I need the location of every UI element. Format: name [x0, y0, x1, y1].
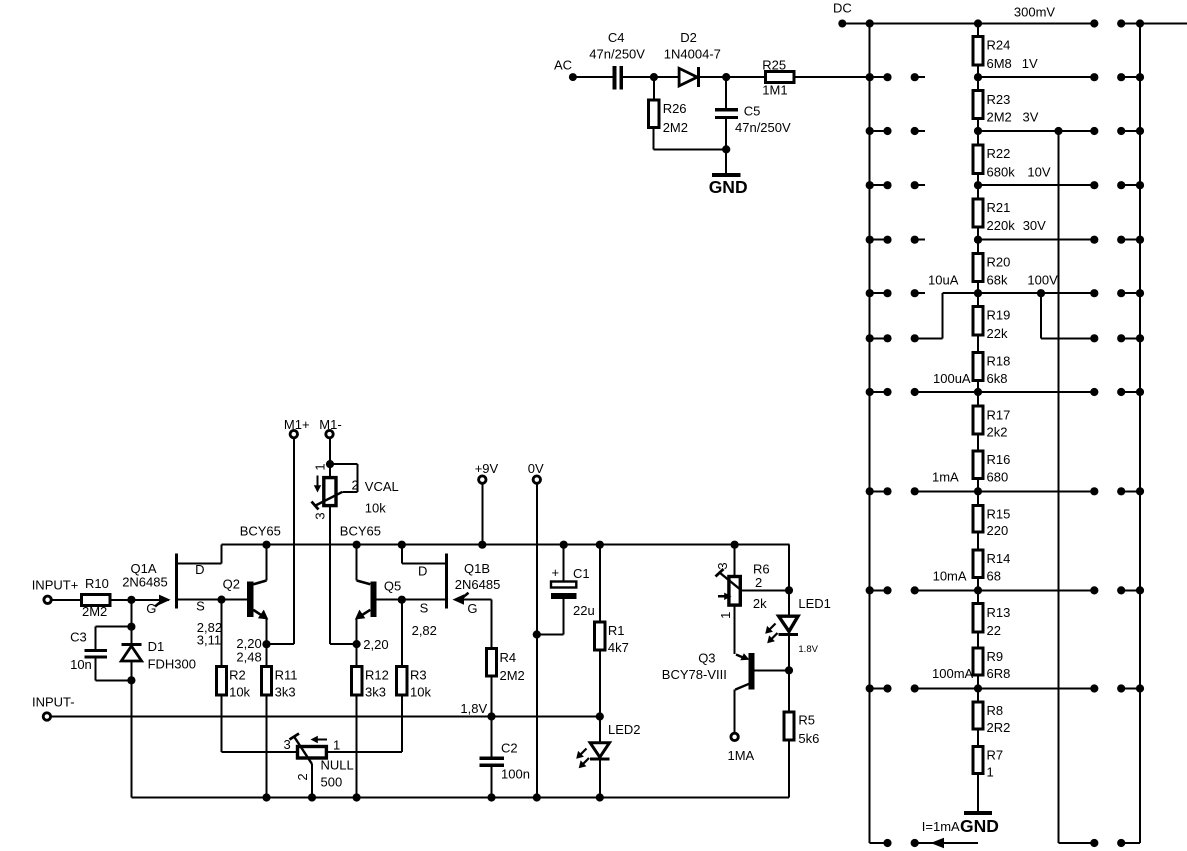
svg-text:100V: 100V	[1027, 272, 1058, 287]
wire 30V row	[866, 236, 1144, 244]
svg-text:68: 68	[987, 569, 1001, 584]
wire ladder spine	[977, 24, 979, 814]
resistor R11 3k3	[261, 644, 297, 797]
wire bottom row I=1mA	[870, 819, 1140, 848]
svg-text:D: D	[195, 562, 204, 577]
svg-text:NULL: NULL	[321, 758, 354, 773]
svg-text:R16: R16	[987, 452, 1011, 467]
svg-text:220k: 220k	[987, 218, 1016, 233]
wire 300mV top row	[842, 5, 1094, 24]
node Q2 emitter / R11 junction	[236, 636, 270, 665]
svg-text:1: 1	[312, 463, 327, 470]
svg-text:BCY65: BCY65	[340, 523, 381, 538]
resistor R12 3k3	[351, 644, 388, 797]
svg-text:GND: GND	[709, 177, 748, 197]
node M1- terminal	[319, 417, 341, 438]
svg-text:LED1: LED1	[798, 596, 831, 611]
svg-text:Q2: Q2	[223, 577, 240, 592]
resistor R13 22	[973, 604, 1011, 638]
svg-text:R9: R9	[987, 649, 1004, 664]
svg-text:3,11: 3,11	[197, 632, 221, 647]
svg-text:1M1: 1M1	[762, 83, 787, 98]
svg-text:AC: AC	[554, 57, 572, 72]
svg-text:3: 3	[312, 512, 327, 519]
potentiometer VCAL 10k	[312, 463, 399, 519]
resistor R2 10k	[216, 600, 250, 752]
resistor R1 4k7	[595, 541, 629, 717]
svg-text:INPUT-: INPUT-	[32, 695, 75, 710]
node Q1B drain rail junction	[398, 541, 406, 549]
wire +9V to rail	[478, 484, 486, 549]
svg-text:D1: D1	[148, 639, 165, 654]
svg-text:2k2: 2k2	[987, 425, 1008, 440]
wire middle rail (3V)	[1058, 131, 1060, 843]
potentiometer R6 2k	[715, 541, 770, 619]
svg-text:Q3: Q3	[698, 650, 715, 665]
svg-text:2M2: 2M2	[663, 120, 688, 135]
svg-text:4k7: 4k7	[608, 640, 629, 655]
resistor R5 5k6	[784, 670, 820, 797]
svg-text:R2: R2	[229, 668, 246, 683]
svg-text:BCY65: BCY65	[240, 523, 281, 538]
resistor R22 680k	[973, 145, 1051, 180]
transistor Q5 BCY65	[340, 523, 446, 644]
resistor R26 2M2	[649, 77, 688, 149]
svg-text:47n/250V: 47n/250V	[735, 120, 791, 135]
svg-text:R17: R17	[987, 407, 1011, 422]
svg-text:S: S	[196, 599, 205, 614]
wire bottom rail	[131, 797, 789, 799]
resistor R8 2R2	[973, 702, 1011, 735]
resistor R3 10k	[397, 600, 432, 752]
wire LED1 branch from rail	[788, 545, 790, 591]
capacitor C3 10n	[70, 600, 135, 681]
svg-text:1: 1	[718, 612, 733, 619]
svg-text:3V: 3V	[1023, 110, 1039, 125]
svg-text:M1-: M1-	[319, 417, 341, 432]
resistor R10 2M2	[82, 576, 111, 619]
svg-text:10k: 10k	[365, 500, 386, 515]
svg-text:R6: R6	[753, 561, 770, 576]
svg-text:1mA: 1mA	[932, 469, 959, 484]
svg-text:VCAL: VCAL	[365, 479, 399, 494]
svg-text:Q5: Q5	[384, 579, 401, 594]
svg-text:2M2: 2M2	[500, 668, 525, 683]
node INPUT+ terminal	[32, 577, 79, 603]
node VCAL pin1 junction	[326, 460, 334, 468]
wire D1 bottom to bottom rail	[130, 680, 132, 797]
svg-text:680k: 680k	[987, 164, 1016, 179]
svg-text:+: +	[552, 565, 560, 580]
svg-text:1,8V: 1,8V	[460, 701, 487, 716]
resistor R14 68	[933, 550, 1011, 584]
wire 1V row	[866, 73, 1144, 81]
node +9V terminal	[475, 461, 499, 483]
node Q3 collector / R5 junction	[785, 666, 793, 674]
svg-text:22u: 22u	[573, 603, 595, 618]
svg-text:2N6485: 2N6485	[122, 574, 168, 589]
resistor R20 68k	[928, 253, 1058, 287]
svg-text:C2: C2	[501, 740, 518, 755]
wire R10 to Q1A gate	[110, 599, 169, 601]
resistor R18 6k8	[933, 352, 1010, 386]
wire 100mA row	[866, 684, 1144, 692]
wire 1mA row	[866, 487, 1144, 495]
node DC terminal	[833, 0, 852, 27]
transistor Q2 BCY65	[223, 523, 281, 644]
node D2/C5/R25 junction	[722, 73, 730, 81]
potentiometer NULL 500	[222, 734, 402, 798]
svg-text:R15: R15	[987, 507, 1011, 522]
wire 3V row	[866, 127, 1144, 135]
svg-text:R14: R14	[987, 551, 1011, 566]
wire R6 bottom to Q3	[734, 605, 736, 654]
svg-text:R21: R21	[987, 200, 1011, 215]
node AC terminal	[554, 57, 577, 81]
svg-text:22k: 22k	[987, 326, 1008, 341]
svg-text:Q1B: Q1B	[464, 561, 490, 576]
ground GND (top section)	[709, 149, 748, 197]
svg-text:LED2: LED2	[608, 722, 641, 737]
node Q5 emitter / R12 junction	[353, 637, 389, 652]
wire right rail	[1139, 24, 1141, 844]
svg-text:R13: R13	[987, 605, 1011, 620]
svg-text:220: 220	[987, 523, 1009, 538]
svg-text:2,48: 2,48	[236, 650, 261, 665]
svg-text:R8: R8	[987, 703, 1004, 718]
resistor R19 22k	[973, 306, 1011, 341]
wire +9V top rail	[222, 544, 790, 546]
capacitor C2 100n	[480, 717, 530, 798]
wire 10V row	[866, 181, 1144, 189]
svg-text:BCY78-VIII: BCY78-VIII	[662, 667, 727, 682]
svg-text:2M2: 2M2	[82, 604, 107, 619]
node R4 / 1,8V rail junction	[487, 712, 495, 720]
svg-text:1N4004-7: 1N4004-7	[664, 47, 721, 62]
wire INPUT- 1,8V rail	[51, 701, 600, 717]
svg-text:INPUT+: INPUT+	[32, 577, 79, 592]
svg-text:I=1mA: I=1mA	[922, 819, 960, 834]
resistor R15 220	[973, 505, 1011, 538]
node bottom rail junctions	[262, 793, 604, 801]
svg-text:3k3: 3k3	[275, 685, 296, 700]
svg-text:C4: C4	[608, 30, 625, 45]
wire 0V line down	[536, 484, 538, 798]
capacitor C1 22u	[533, 541, 595, 639]
node C4/R26/D2 junction	[650, 73, 658, 81]
svg-text:2k: 2k	[753, 596, 767, 611]
node M1+ terminal	[284, 417, 310, 438]
svg-text:6M8: 6M8	[987, 56, 1012, 71]
svg-text:100n: 100n	[501, 767, 530, 782]
svg-text:1MA: 1MA	[728, 748, 755, 763]
svg-text:10k: 10k	[229, 685, 250, 700]
ground GND (ladder bottom)	[960, 813, 999, 836]
svg-text:6k8: 6k8	[987, 371, 1008, 386]
svg-text:M1+: M1+	[284, 417, 310, 432]
svg-text:R20: R20	[987, 255, 1011, 270]
transistor Q1A 2N6485 JFET	[122, 545, 247, 617]
svg-text:GND: GND	[960, 816, 999, 836]
wire 100V row	[866, 289, 1144, 297]
svg-text:47n/250V: 47n/250V	[589, 47, 645, 62]
svg-text:3: 3	[284, 737, 291, 752]
node gate/D1 junction	[127, 596, 135, 604]
resistor R25 1M1	[762, 58, 794, 98]
svg-text:2,20: 2,20	[363, 637, 388, 652]
svg-text:1.8V: 1.8V	[798, 644, 818, 655]
resistor R9 6R8	[932, 648, 1010, 681]
svg-text:R18: R18	[987, 354, 1011, 369]
svg-text:2: 2	[352, 478, 359, 493]
wire 10mA row	[866, 586, 1144, 594]
svg-text:1: 1	[333, 738, 340, 753]
wire R6 wiper to LED1 branch	[740, 589, 789, 591]
resistor R24 6M8	[973, 36, 1038, 71]
svg-text:2: 2	[295, 773, 310, 780]
svg-text:R25: R25	[762, 58, 786, 73]
svg-text:2N6485: 2N6485	[455, 577, 501, 592]
svg-text:68k: 68k	[987, 272, 1008, 287]
svg-text:R24: R24	[987, 38, 1011, 53]
svg-text:R5: R5	[798, 713, 815, 728]
resistor R17 2k2	[973, 406, 1011, 440]
node 1MA terminal	[728, 733, 755, 763]
wire R26 bottom to C5 bottom	[654, 148, 727, 150]
wire 100uA row	[866, 388, 1144, 396]
svg-text:R1: R1	[608, 623, 625, 638]
svg-text:0V: 0V	[528, 461, 544, 476]
node Q5 collector rail junction	[353, 541, 361, 549]
capacitor C4 47n/250V	[589, 30, 645, 89]
svg-text:100mA: 100mA	[932, 666, 974, 681]
resistor R16 680	[932, 451, 1010, 485]
svg-text:6R8: 6R8	[987, 666, 1011, 681]
svg-text:1V: 1V	[1022, 56, 1038, 71]
svg-text:5k6: 5k6	[798, 731, 819, 746]
svg-text:2: 2	[755, 575, 762, 590]
svg-text:G: G	[146, 601, 156, 616]
svg-text:R4: R4	[500, 650, 517, 665]
svg-text:10V: 10V	[1027, 164, 1050, 179]
svg-text:R19: R19	[987, 308, 1011, 323]
diode D2 1N4004-7	[664, 30, 721, 87]
svg-text:500: 500	[321, 774, 343, 789]
wire M1+ to Q2 emitter	[267, 438, 294, 644]
svg-text:3k3: 3k3	[365, 685, 386, 700]
svg-text:2R2: 2R2	[987, 720, 1011, 735]
svg-text:C3: C3	[70, 630, 87, 645]
node 0V terminal	[528, 461, 544, 483]
svg-text:2,82: 2,82	[412, 623, 437, 638]
svg-text:R26: R26	[663, 101, 687, 116]
svg-text:G: G	[467, 601, 477, 616]
node INPUT- terminal	[32, 695, 75, 721]
wire C4 to D2 node	[623, 76, 679, 78]
wire INPUT+ to R10	[52, 599, 82, 601]
svg-text:R10: R10	[85, 576, 109, 591]
capacitor C5 47n/250V	[715, 77, 791, 149]
svg-text:300mV: 300mV	[1014, 5, 1056, 20]
wire R25 to DC rail (1V row left)	[794, 76, 887, 78]
transistor Q3 BCY78-VIII	[662, 650, 789, 732]
node Q2 collector rail junction	[262, 541, 270, 549]
wire top row right segment	[1117, 19, 1187, 27]
svg-text:R23: R23	[987, 92, 1011, 107]
svg-text:1: 1	[987, 764, 994, 779]
wire D2 to node	[699, 76, 766, 78]
svg-text:22: 22	[987, 623, 1001, 638]
svg-text:10mA: 10mA	[933, 569, 967, 584]
svg-text:R22: R22	[987, 146, 1011, 161]
node Q1A source / R2 junction	[197, 596, 226, 648]
node R6 wiper / LED1 junction	[785, 586, 793, 594]
svg-text:C1: C1	[573, 566, 590, 581]
svg-text:R11: R11	[275, 668, 298, 683]
svg-text:D2: D2	[680, 30, 697, 45]
node top row junctions	[866, 19, 1099, 27]
svg-text:3: 3	[715, 562, 730, 569]
wire 10uA jumper row	[866, 293, 1144, 342]
resistor R7 1	[973, 746, 1003, 779]
node C5/R26 bottom junction	[722, 145, 730, 153]
node R1 / LED2 junction	[596, 712, 604, 720]
svg-text:D: D	[418, 563, 427, 578]
resistor R4 2M2	[486, 600, 524, 717]
svg-text:R3: R3	[410, 668, 427, 683]
wire AC to C4	[573, 76, 613, 78]
wire M1- to VCAL	[329, 438, 331, 477]
svg-text:10uA: 10uA	[928, 272, 959, 287]
svg-text:680: 680	[987, 469, 1009, 484]
svg-text:DC: DC	[833, 0, 852, 15]
LED LED2	[576, 717, 640, 798]
svg-text:2M2: 2M2	[987, 110, 1012, 125]
svg-text:+9V: +9V	[475, 461, 499, 476]
LED LED1	[765, 590, 831, 670]
wire left rail	[869, 24, 871, 844]
wire VCAL bottom to Q5 emitter	[330, 506, 357, 644]
svg-text:30V: 30V	[1023, 218, 1046, 233]
transistor Q1B 2N6485 JFET	[402, 545, 501, 617]
svg-text:10n: 10n	[70, 657, 92, 672]
svg-text:R12: R12	[365, 668, 389, 683]
svg-text:10k: 10k	[410, 685, 431, 700]
resistor R21 220k	[973, 199, 1046, 233]
diode D1 FDH300	[121, 627, 196, 685]
svg-text:S: S	[420, 601, 429, 616]
resistor R23 2M2	[973, 91, 1039, 125]
svg-text:FDH300: FDH300	[148, 657, 196, 672]
node Q5 base / R3 junction	[398, 596, 437, 638]
svg-text:C5: C5	[744, 103, 761, 118]
svg-text:100uA: 100uA	[933, 371, 971, 386]
svg-text:R7: R7	[987, 748, 1004, 763]
